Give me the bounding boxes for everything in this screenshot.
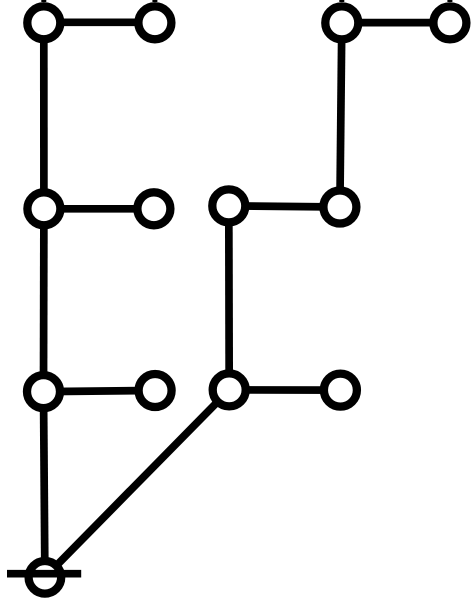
tick atop node N4 (447, 0, 452, 2)
node N4 (433, 6, 466, 39)
wire N11-N13 diagonal (45, 390, 229, 577)
wire N7-N8 (229, 206, 340, 207)
node N7 (212, 189, 245, 222)
wire N1-N2 (44, 18, 155, 26)
wire N3-N4 (342, 19, 450, 27)
wire N3-N8 (340, 23, 342, 207)
wire N1-N5 (40, 23, 48, 209)
node N11 (213, 373, 246, 406)
node N9 (27, 375, 60, 408)
tick atop node N3 (339, 0, 344, 2)
wire N5-N9 (40, 209, 48, 392)
node N12 (324, 374, 357, 407)
node N2 (138, 6, 171, 39)
wire N9-N10 (44, 391, 156, 392)
node N5 (27, 192, 60, 225)
node N1 (27, 6, 60, 39)
wire N11-N12 (229, 386, 340, 394)
wire N5-N6 (44, 205, 154, 213)
node N13 marked terminal (29, 561, 62, 594)
node N3 (325, 6, 358, 39)
node N6 (137, 192, 170, 225)
node N10 (139, 374, 172, 407)
node N8 (323, 191, 356, 224)
tick atop node N1 (41, 0, 46, 2)
wire N9-N13 (44, 392, 45, 578)
strike line through node N13 (7, 570, 81, 578)
wire N7-N11 (225, 206, 233, 390)
tick atop node N2 (152, 0, 157, 2)
